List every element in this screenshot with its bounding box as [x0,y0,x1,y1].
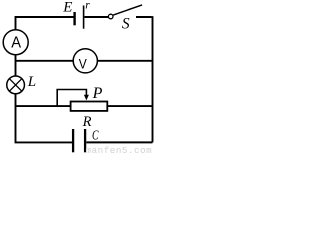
wire battery to switch [84,16,108,18]
wire voltmeter left [16,60,74,62]
voltmeter V [73,49,97,73]
ammeter A [3,30,28,55]
wire left frame to rheostat [16,105,71,107]
slider bracket wire [57,90,86,107]
wire rheostat to right frame [107,105,152,107]
wire capacitor to bottom-right corner [86,141,152,143]
svg-text:L: L [27,74,36,90]
svg-text:E: E [62,0,72,16]
lamp L [7,76,25,94]
svg-text:S: S [122,16,130,33]
battery E [75,6,84,29]
svg-text:P: P [92,85,103,102]
switch S [108,5,142,19]
wire lamp to bottom-left corner [16,94,73,143]
wire switch to top-right corner and right frame [136,16,153,142]
svg-text:r: r [85,0,90,11]
svg-text:R: R [82,114,92,130]
capacitor C [73,129,85,152]
wire top-left segment [16,17,74,30]
wire voltmeter right [97,60,152,62]
svg-text:V: V [79,56,87,72]
svg-text:A: A [11,35,21,52]
svg-text:C: C [92,128,99,143]
wire A to lamp [15,55,17,76]
slider arrowhead P [84,95,89,101]
svg-text:manfen5.com: manfen5.com [86,145,153,155]
rheostat R body [71,102,108,111]
